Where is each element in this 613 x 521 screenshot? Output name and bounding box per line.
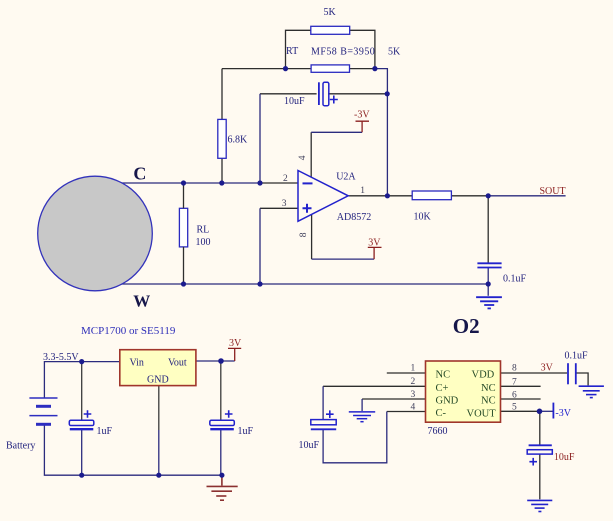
svg-text:U2A: U2A [336,172,356,183]
svg-text:6: 6 [512,390,517,400]
svg-text:0.1uF: 0.1uF [503,274,527,285]
svg-text:3V: 3V [368,238,381,249]
svg-text:10K: 10K [414,212,432,223]
svg-text:5K: 5K [324,7,337,18]
svg-text:Battery: Battery [6,441,35,452]
svg-text:VDD: VDD [472,370,495,381]
svg-text:AD8572: AD8572 [337,212,371,223]
svg-text:-3V: -3V [555,408,571,419]
svg-text:RT: RT [286,46,298,57]
svg-text:6.8K: 6.8K [228,135,249,146]
svg-text:NC: NC [481,396,496,407]
svg-text:5K: 5K [388,47,401,58]
svg-text:VOUT: VOUT [467,408,497,419]
svg-text:1: 1 [411,364,416,374]
svg-text:3: 3 [282,199,287,209]
svg-text:8: 8 [299,232,309,237]
svg-text:7660: 7660 [428,426,448,437]
svg-text:-3V: -3V [354,109,370,120]
svg-text:1uF: 1uF [238,426,254,437]
svg-text:3V: 3V [541,362,554,373]
svg-text:3V: 3V [229,338,242,349]
svg-text:Vin: Vin [130,358,144,369]
svg-text:10uF: 10uF [554,452,575,463]
svg-text:10uF: 10uF [299,440,320,451]
svg-text:1: 1 [360,186,365,196]
svg-text:3.3-5.5V: 3.3-5.5V [43,352,79,363]
svg-text:C-: C- [436,408,447,419]
svg-text:Vout: Vout [168,358,187,369]
svg-text:C+: C+ [436,383,449,394]
svg-text:2: 2 [283,174,288,184]
svg-text:4: 4 [298,155,308,160]
svg-text:4: 4 [411,403,416,413]
svg-text:GND: GND [436,396,459,407]
svg-text:O2: O2 [453,314,480,338]
svg-text:NC: NC [436,370,451,381]
svg-text:1uF: 1uF [97,426,113,437]
svg-text:3: 3 [411,390,416,400]
svg-text:C: C [133,164,146,184]
svg-text:MCP1700 or SE5119: MCP1700 or SE5119 [81,325,176,337]
svg-text:W: W [133,292,150,311]
svg-text:2: 2 [411,377,416,387]
svg-text:8: 8 [512,364,517,374]
svg-text:100: 100 [196,237,211,248]
svg-text:NC: NC [481,383,496,394]
svg-text:GND: GND [147,375,169,386]
svg-text:7: 7 [512,377,517,387]
svg-text:MF58 B=3950: MF58 B=3950 [311,47,375,58]
svg-text:10uF: 10uF [284,96,305,107]
svg-text:RL: RL [197,225,210,236]
svg-text:SOUT: SOUT [540,186,566,197]
svg-text:5: 5 [512,403,517,413]
svg-text:0.1uF: 0.1uF [565,351,589,362]
